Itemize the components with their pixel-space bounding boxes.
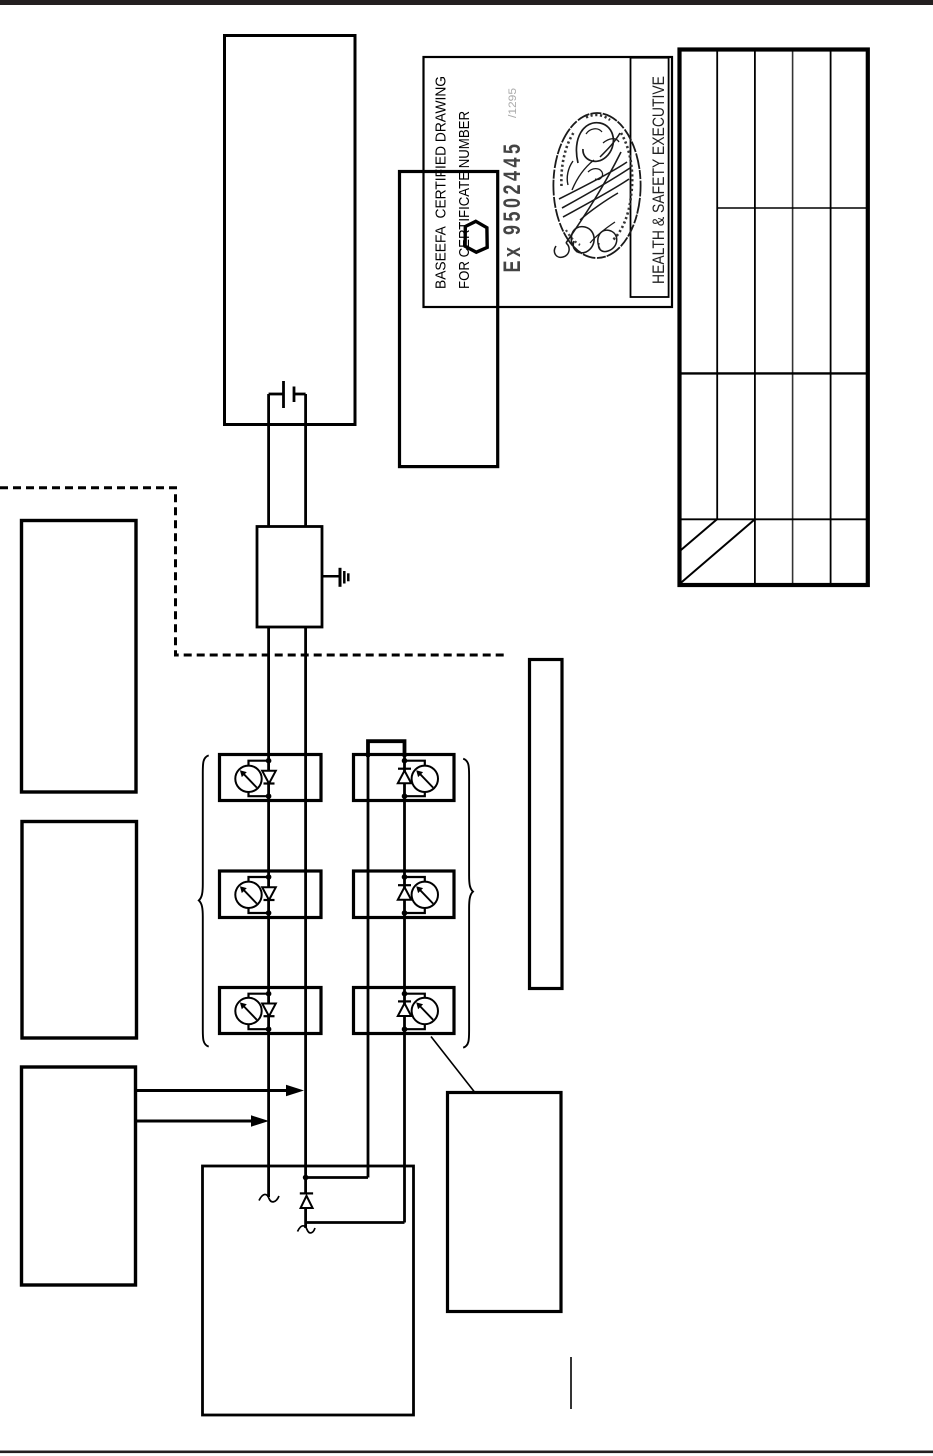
svg-text:Ex 9502445: Ex 9502445	[498, 144, 525, 273]
svg-text:/1295: /1295	[507, 88, 519, 118]
svg-text:BASEEFA CERTIFIED DRAWING: BASEEFA CERTIFIED DRAWING	[433, 76, 450, 289]
svg-text:FOR CERTIFICATE NUMBER: FOR CERTIFICATE NUMBER	[456, 111, 473, 289]
svg-text:HEALTH & SAFETY EXECUTIVE: HEALTH & SAFETY EXECUTIVE	[649, 76, 668, 284]
